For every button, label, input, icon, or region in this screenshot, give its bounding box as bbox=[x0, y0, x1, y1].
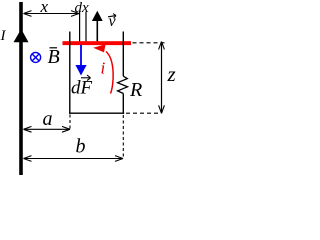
svg-text:z: z bbox=[167, 62, 176, 86]
dimension a left arrowhead bbox=[24, 126, 32, 132]
dashed line from rod to z dimension bbox=[133, 42, 166, 44]
dimension x line bbox=[24, 13, 80, 15]
dimension z top arrowhead bbox=[159, 42, 165, 50]
induced current i arrowhead (red) bbox=[93, 44, 105, 52]
svg-text:dx: dx bbox=[75, 0, 90, 16]
svg-text:B: B bbox=[48, 46, 60, 68]
svg-text:i: i bbox=[101, 59, 106, 78]
dimension b left arrowhead bbox=[24, 156, 32, 162]
strip dx right boundary line bbox=[85, 12, 87, 42]
force dF arrowhead (blue) bbox=[75, 65, 86, 76]
label B with overbar bbox=[48, 46, 60, 68]
force dF arrow shaft (blue) bbox=[80, 45, 82, 66]
dashed line bottom right to z dimension bbox=[126, 112, 161, 114]
strip dx left boundary line bbox=[79, 12, 81, 42]
dimension z line bbox=[161, 42, 163, 114]
svg-text:b: b bbox=[76, 136, 86, 158]
velocity v arrowhead bbox=[92, 11, 103, 21]
resistor R zigzag bbox=[118, 76, 128, 93]
label dF with vector arrow bbox=[71, 75, 93, 99]
dimension z bottom arrowhead bbox=[159, 105, 165, 113]
dimension a line bbox=[24, 128, 71, 130]
magnetic field symbol (circle with X) bbox=[31, 52, 41, 62]
dimension x right arrowhead bbox=[71, 11, 79, 17]
bottom wire of loop bbox=[69, 112, 124, 114]
sliding rod (red) bbox=[63, 41, 132, 45]
svg-text:I: I bbox=[0, 28, 7, 44]
label v with overbar bbox=[108, 13, 117, 30]
dimension b right arrowhead bbox=[115, 156, 123, 162]
dimension b line bbox=[24, 158, 124, 160]
left rail bbox=[69, 32, 71, 114]
svg-text:dF: dF bbox=[71, 78, 93, 99]
svg-text:a: a bbox=[43, 108, 53, 130]
dashed extension of left rail for a dimension bbox=[69, 115, 71, 130]
dimension a right arrowhead bbox=[62, 126, 70, 132]
current I arrowhead on wire bbox=[14, 29, 29, 42]
long straight wire (current I) bbox=[19, 2, 23, 175]
right rail upper segment bbox=[122, 32, 124, 77]
right rail lower segment bbox=[122, 94, 124, 114]
svg-text:x: x bbox=[40, 0, 49, 16]
velocity v arrow shaft bbox=[96, 19, 98, 42]
svg-text:R: R bbox=[129, 79, 142, 101]
induced current i arc (red) bbox=[106, 52, 113, 94]
dashed extension of right rail for b dimension bbox=[122, 115, 124, 159]
dimension x left arrowhead bbox=[24, 11, 32, 17]
